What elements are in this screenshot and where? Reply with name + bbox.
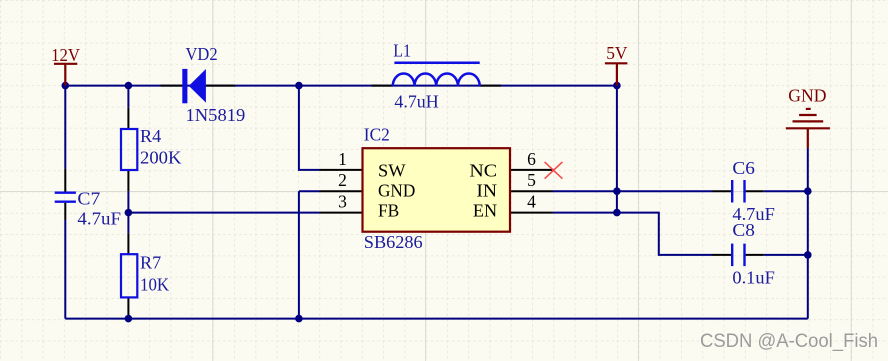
svg-text:NC: NC — [469, 160, 497, 180]
node 5V junction — [613, 82, 621, 90]
pin IC2-2 GND — [320, 190, 363, 192]
capacitor C6 — [732, 180, 744, 203]
wire GND vertical — [299, 191, 320, 318]
node R7 bottom junction — [125, 315, 133, 323]
svg-text:C7: C7 — [77, 189, 100, 209]
capacitor C7 — [55, 193, 76, 202]
pin C8 left — [712, 254, 731, 256]
pin C6 left — [712, 190, 731, 192]
node SW junction — [295, 82, 303, 90]
svg-text:2: 2 — [338, 170, 347, 190]
svg-text:0.1uF: 0.1uF — [732, 268, 775, 288]
wire 5V stem vertical — [616, 86, 618, 213]
diode VD2 — [182, 69, 206, 103]
svg-text:6: 6 — [527, 149, 536, 169]
power symbol 5V — [605, 63, 628, 85]
pin VD2 anode — [161, 85, 183, 87]
pin L1 right — [480, 85, 501, 87]
resistor R4 — [121, 129, 137, 170]
svg-text:4.7uH: 4.7uH — [394, 92, 439, 112]
svg-text:R4: R4 — [140, 126, 161, 146]
svg-text:EN: EN — [473, 201, 498, 221]
pin VD2 cathode — [206, 85, 235, 87]
pin C7 bottom — [64, 203, 66, 220]
wire left rail lower — [64, 220, 66, 319]
pin R4 bottom — [127, 170, 129, 191]
node R4 top junction — [125, 82, 133, 90]
pin R4 top — [127, 108, 129, 129]
svg-text:VD2: VD2 — [186, 44, 218, 64]
svg-text:GND: GND — [788, 86, 826, 106]
wire SW vertical — [299, 86, 320, 170]
inductor L1 — [393, 63, 480, 86]
svg-text:SB6286: SB6286 — [364, 232, 423, 252]
node C8 right junction — [804, 251, 812, 259]
svg-text:3: 3 — [338, 192, 347, 212]
pin IC2-6 NC — [510, 169, 554, 171]
pin C6 right — [746, 190, 764, 192]
svg-text:IN: IN — [476, 181, 497, 201]
pin IC2-4 EN — [510, 212, 553, 214]
pin L1 left — [372, 85, 393, 87]
svg-text:FB: FB — [378, 201, 399, 221]
svg-text:1N5819: 1N5819 — [186, 105, 246, 125]
svg-text:5: 5 — [527, 170, 536, 190]
ground symbol GND — [786, 109, 830, 148]
svg-text:CSDN @A-Cool_Fish: CSDN @A-Cool_Fish — [700, 330, 878, 352]
wire FB to divider — [128, 212, 319, 214]
component pins (black) — [65, 86, 763, 319]
wire left rail upper — [64, 86, 66, 169]
wire bottom rail — [65, 318, 808, 320]
svg-text:C8: C8 — [732, 220, 755, 240]
wire C6 right — [764, 190, 808, 192]
pin IC2-5 IN — [510, 190, 553, 192]
svg-text:4: 4 — [527, 192, 536, 212]
wires (navy) — [65, 86, 808, 319]
node EN junction — [613, 209, 621, 217]
svg-text:GND: GND — [378, 181, 415, 201]
pin IC2-3 FB — [320, 212, 363, 214]
pin R7 top — [127, 233, 129, 254]
wire top rail — [65, 85, 617, 87]
node IN junction — [613, 187, 621, 195]
svg-text:SW: SW — [378, 160, 406, 180]
wire right column — [807, 148, 809, 319]
pin C7 top — [64, 169, 66, 192]
pin R7 bottom — [127, 297, 129, 318]
wire R4 top — [127, 86, 129, 108]
svg-text:R7: R7 — [140, 253, 161, 273]
svg-text:1: 1 — [338, 149, 347, 169]
wire C8 right — [764, 254, 808, 256]
wire R4-R7 mid — [127, 191, 129, 233]
pin C8 right — [746, 254, 764, 256]
node FB junction — [125, 209, 133, 217]
wire IN net — [553, 190, 713, 192]
power symbol 12V — [54, 64, 77, 86]
svg-text:10K: 10K — [140, 275, 169, 295]
no-connect X on pin 6 — [545, 162, 563, 179]
node C6 right junction — [804, 187, 812, 195]
svg-text:12V: 12V — [51, 45, 80, 65]
svg-text:C6: C6 — [732, 158, 755, 178]
IC U1 body SB6286 — [363, 148, 511, 232]
svg-text:200K: 200K — [140, 147, 182, 167]
svg-text:L1: L1 — [393, 41, 411, 61]
node 12V rail junction — [62, 82, 70, 90]
capacitor C8 — [732, 244, 744, 267]
svg-text:5V: 5V — [606, 43, 628, 63]
svg-text:4.7uF: 4.7uF — [77, 209, 121, 229]
svg-text:IC2: IC2 — [364, 125, 390, 145]
resistor R7 — [121, 254, 137, 297]
node GND bottom junction — [295, 315, 303, 323]
wire EN net — [553, 213, 713, 255]
pin IC2-1 SW — [320, 169, 363, 171]
